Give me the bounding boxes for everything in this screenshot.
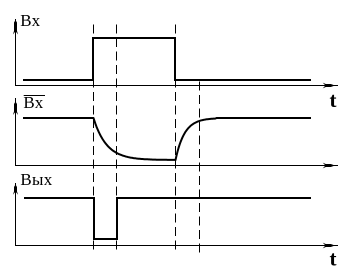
svg-text:t: t bbox=[330, 88, 337, 112]
dashed timing guide line 4 (recovery point) bbox=[199, 82, 201, 254]
dashed timing guide line 1 (pulse start) bbox=[93, 25, 95, 254]
panel 2 axis label overline bbox=[24, 95, 45, 97]
panel 1 horizontal axis bbox=[15, 85, 338, 87]
dashed timing guide line 3 (input pulse end) bbox=[175, 25, 177, 254]
panel 3 horizontal axis bbox=[15, 245, 338, 247]
panel 3 vertical axis bbox=[15, 183, 17, 246]
panel 2 horizontal axis bbox=[15, 165, 338, 167]
panel 1 vertical axis bbox=[15, 19, 17, 86]
panel 1 vertical axis arrowhead bbox=[13, 20, 18, 35]
panel 3 output negative pulse waveform bbox=[24, 198, 311, 239]
svg-text:Вых: Вых bbox=[20, 170, 52, 189]
panel 1 horizontal axis arrowhead bbox=[323, 83, 335, 89]
panel 2 horizontal axis arrowhead bbox=[323, 163, 335, 169]
panel 3 horizontal axis arrowhead bbox=[323, 243, 335, 249]
dashed timing guide line 2 (output pulse end) bbox=[116, 25, 118, 254]
svg-text:Вх: Вх bbox=[23, 93, 43, 112]
panel 2 vertical axis bbox=[15, 98, 17, 166]
svg-text:Вх: Вх bbox=[20, 11, 40, 30]
panel 3 vertical axis arrowhead bbox=[13, 185, 18, 195]
panel 1 input pulse waveform bbox=[23, 38, 311, 80]
svg-text:t: t bbox=[330, 246, 337, 270]
panel 2 vertical axis arrowhead bbox=[13, 102, 18, 116]
panel 2 inverted-input waveform with RC fall and recovery bbox=[23, 118, 311, 160]
